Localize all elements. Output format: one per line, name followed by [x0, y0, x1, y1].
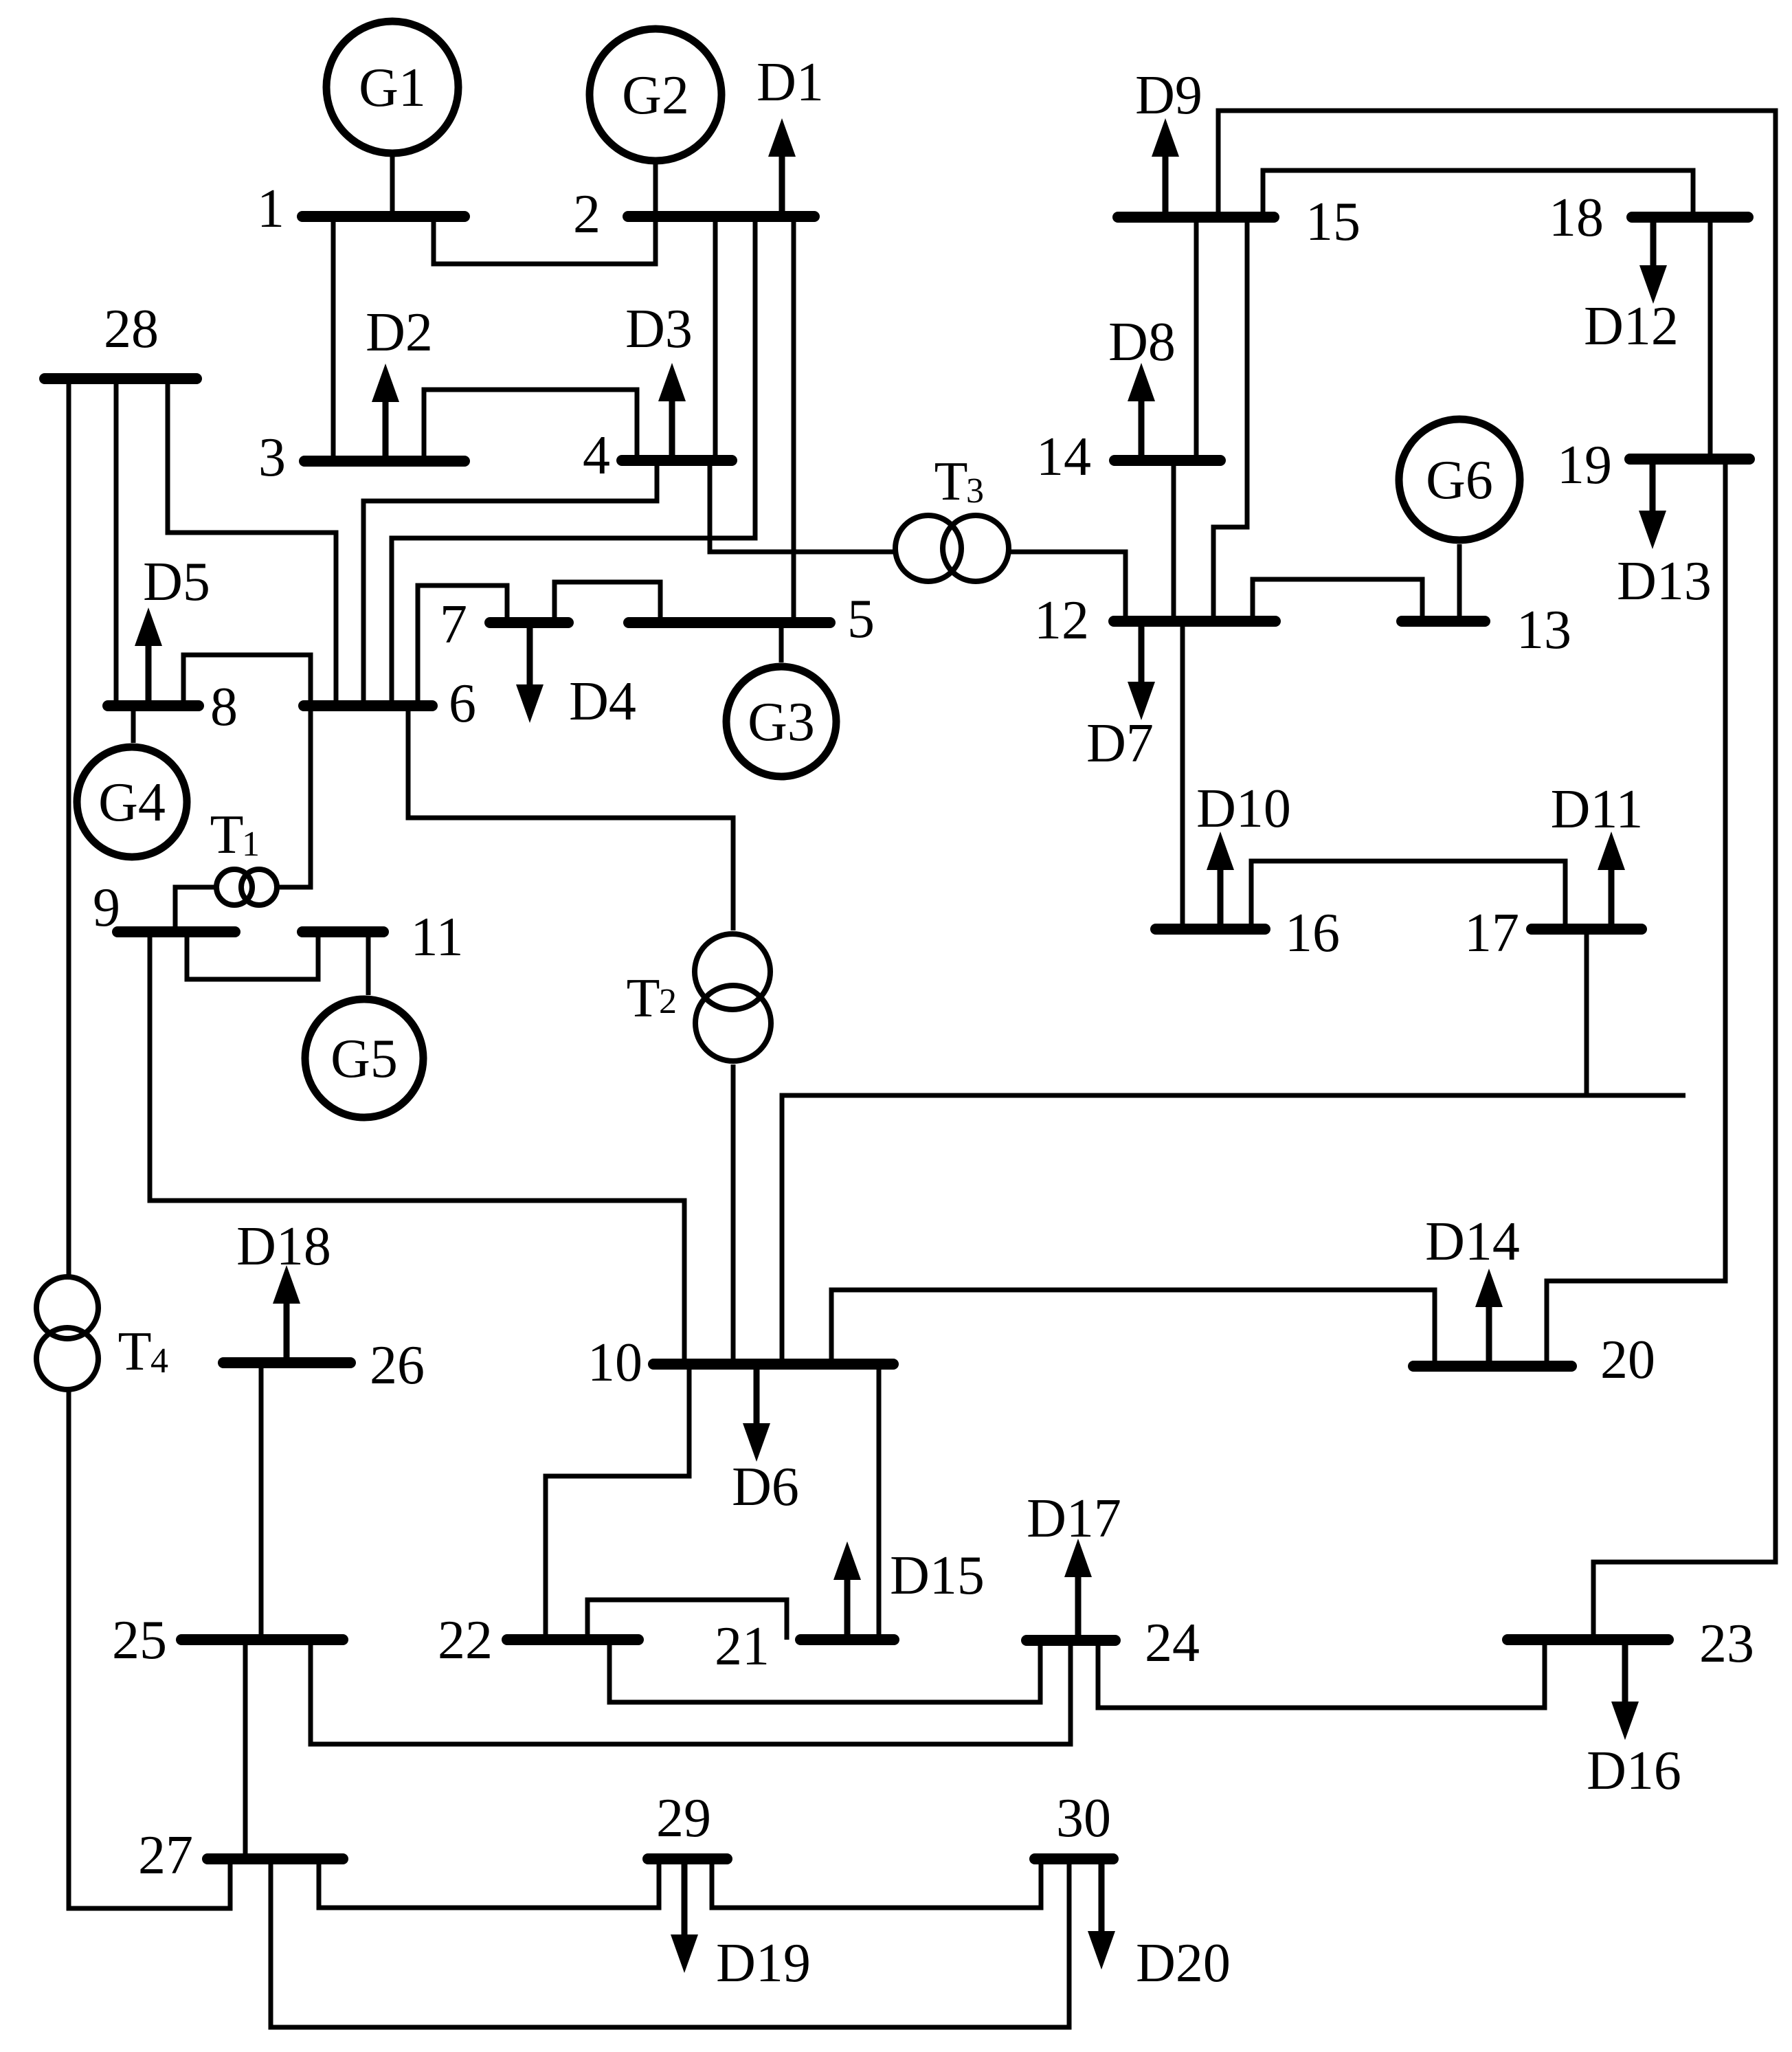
- wire 14-12: [1172, 460, 1176, 621]
- wire T3-12: [1011, 552, 1125, 621]
- wire 26-25: [259, 1363, 264, 1640]
- svg-text:G6: G6: [1426, 450, 1493, 511]
- svg-text:T: T: [210, 805, 244, 865]
- bus 13: [1402, 600, 1571, 660]
- wire 3-4: [424, 390, 637, 461]
- load D19: [671, 1859, 811, 1994]
- svg-text:G1: G1: [359, 58, 426, 118]
- svg-text:T: T: [627, 968, 660, 1029]
- bus 22: [438, 1610, 638, 1671]
- bus 15: [1118, 192, 1360, 252]
- wire 29-30: [712, 1859, 1041, 1908]
- svg-text:4: 4: [150, 1341, 168, 1381]
- svg-text:17: 17: [1464, 903, 1519, 963]
- svg-text:1: 1: [242, 825, 260, 864]
- svg-text:G4: G4: [98, 772, 166, 833]
- bus 17: [1464, 903, 1642, 963]
- wire 19-20: [1547, 459, 1725, 1366]
- wire 24-23: [1098, 1640, 1545, 1708]
- bus 14: [1036, 427, 1220, 487]
- wire G5 lead: [366, 932, 371, 995]
- wire 12-16: [1180, 621, 1185, 929]
- svg-text:9: 9: [93, 878, 120, 938]
- svg-text:3: 3: [966, 471, 984, 511]
- bus 30: [1035, 1788, 1113, 1859]
- svg-text:25: 25: [112, 1610, 167, 1671]
- wire 27-30: [271, 1859, 1069, 2027]
- svg-text:D10: D10: [1196, 779, 1291, 839]
- svg-text:16: 16: [1285, 903, 1340, 963]
- wire 12-13: [1253, 579, 1422, 621]
- load D9: [1135, 65, 1202, 217]
- load D12: [1584, 217, 1679, 357]
- bus 11: [302, 907, 464, 968]
- svg-text:D17: D17: [1027, 1488, 1121, 1549]
- bus 2: [573, 184, 814, 245]
- bus 19: [1557, 435, 1749, 495]
- bus 16: [1156, 903, 1340, 963]
- svg-text:2: 2: [659, 982, 677, 1021]
- wire 10-22: [546, 1364, 689, 1640]
- wire 22-24: [609, 1640, 1040, 1702]
- svg-text:5: 5: [847, 589, 875, 649]
- generator G6: [1399, 419, 1520, 540]
- wire 17 drop: [1584, 929, 1589, 1095]
- svg-text:1: 1: [257, 179, 284, 239]
- bus 27: [138, 1825, 343, 1886]
- load D4: [516, 623, 636, 732]
- generator G4: [77, 747, 187, 857]
- load D6: [732, 1364, 799, 1517]
- wire 28-T4: [67, 379, 71, 1275]
- load D11: [1551, 779, 1644, 929]
- svg-text:D16: D16: [1587, 1741, 1681, 1801]
- bus 23: [1508, 1614, 1754, 1674]
- svg-text:D11: D11: [1551, 779, 1644, 840]
- load D10: [1196, 779, 1291, 929]
- svg-text:D18: D18: [236, 1216, 331, 1277]
- svg-text:D8: D8: [1108, 312, 1176, 372]
- load D16: [1587, 1640, 1681, 1801]
- load D2: [366, 302, 433, 461]
- svg-text:28: 28: [104, 299, 159, 359]
- load D3: [625, 299, 693, 460]
- svg-text:14: 14: [1036, 427, 1091, 487]
- svg-text:12: 12: [1034, 590, 1089, 651]
- wire 2-4: [713, 216, 718, 460]
- svg-text:26: 26: [370, 1335, 425, 1396]
- svg-text:G5: G5: [331, 1029, 398, 1089]
- wire 15-12: [1213, 217, 1247, 621]
- svg-text:D4: D4: [569, 671, 636, 732]
- svg-text:D3: D3: [625, 299, 693, 359]
- transformer T1: [210, 805, 277, 905]
- svg-text:24: 24: [1145, 1613, 1200, 1673]
- svg-text:D13: D13: [1617, 551, 1712, 612]
- svg-text:D2: D2: [366, 302, 433, 363]
- wire 6-T1: [278, 706, 311, 887]
- bus 25: [112, 1610, 343, 1671]
- wire G2 lead: [653, 161, 658, 216]
- transformer T2: [627, 934, 771, 1061]
- svg-text:G2: G2: [622, 65, 689, 126]
- svg-text:21: 21: [715, 1616, 770, 1677]
- bus 3: [258, 427, 464, 488]
- svg-text:T: T: [118, 1321, 152, 1382]
- wire 4-6: [363, 460, 657, 706]
- wire 2-5: [792, 216, 796, 623]
- wire 6-7: [418, 586, 507, 706]
- wire 7-5: [555, 582, 660, 623]
- wire 16-17: [1251, 861, 1565, 929]
- wire 1-3: [331, 216, 336, 461]
- load D13: [1617, 459, 1712, 612]
- generator G5: [305, 999, 423, 1117]
- wire 9-10: [150, 932, 684, 1364]
- svg-text:D6: D6: [732, 1457, 799, 1517]
- svg-text:15: 15: [1306, 192, 1360, 252]
- wire 1-2: [434, 216, 656, 264]
- svg-text:8: 8: [210, 677, 238, 737]
- wire T4-27: [69, 1392, 230, 1908]
- generator G3: [726, 667, 836, 777]
- wire 22-21: [587, 1600, 787, 1640]
- wire 28-6: [168, 379, 336, 706]
- svg-text:20: 20: [1600, 1330, 1655, 1390]
- wire 10-21: [877, 1364, 882, 1640]
- bus 20: [1413, 1330, 1655, 1390]
- wire G3 lead: [779, 623, 784, 662]
- load D5: [135, 552, 210, 706]
- svg-text:D7: D7: [1086, 713, 1154, 774]
- svg-text:D15: D15: [890, 1546, 985, 1606]
- svg-text:3: 3: [258, 427, 286, 488]
- wire T2-10: [731, 1064, 736, 1364]
- svg-text:2: 2: [573, 184, 601, 245]
- wire 27-29: [319, 1859, 659, 1908]
- wire 10-17: [782, 1095, 1685, 1364]
- svg-text:13: 13: [1516, 600, 1571, 660]
- bus 1: [257, 179, 464, 239]
- wire 15-14: [1194, 217, 1199, 460]
- load D17: [1027, 1488, 1121, 1640]
- bus 12: [1034, 590, 1275, 651]
- generator G1: [326, 21, 458, 153]
- svg-text:6: 6: [449, 673, 476, 734]
- svg-text:7: 7: [440, 594, 467, 655]
- bus 4: [583, 425, 732, 486]
- svg-text:D9: D9: [1135, 65, 1202, 126]
- wire 18-19: [1708, 217, 1713, 459]
- bus 8: [108, 677, 238, 737]
- bus 5: [629, 589, 875, 649]
- bus 18: [1549, 188, 1748, 248]
- bus 6: [304, 673, 476, 734]
- load D8: [1108, 312, 1176, 460]
- bus 26: [223, 1335, 425, 1396]
- wire 25-27: [243, 1640, 248, 1859]
- wire 15-23: [1218, 111, 1776, 1640]
- wire 4-T3: [710, 460, 893, 552]
- svg-text:D12: D12: [1584, 296, 1679, 357]
- bus 21: [715, 1616, 894, 1677]
- svg-text:19: 19: [1557, 435, 1612, 495]
- wire G6 lead: [1457, 544, 1462, 621]
- transformer T4: [36, 1277, 168, 1390]
- svg-text:18: 18: [1549, 188, 1604, 248]
- bus 7: [440, 594, 568, 655]
- bus 9: [93, 878, 235, 938]
- svg-text:23: 23: [1699, 1614, 1754, 1674]
- svg-text:30: 30: [1056, 1788, 1111, 1849]
- svg-text:11: 11: [410, 907, 463, 968]
- wire 6-T2: [408, 706, 733, 930]
- wire G1 lead: [390, 153, 395, 216]
- svg-text:29: 29: [656, 1788, 711, 1849]
- wire T1-9: [175, 887, 216, 932]
- wire 28-8: [114, 379, 119, 706]
- wire 10-20: [831, 1290, 1435, 1366]
- svg-text:4: 4: [583, 425, 610, 486]
- load D14: [1425, 1212, 1520, 1366]
- load D18: [236, 1216, 331, 1363]
- bus 29: [648, 1788, 727, 1859]
- wire 9-11: [187, 932, 318, 979]
- svg-text:27: 27: [138, 1825, 193, 1886]
- transformer T3: [895, 451, 1009, 581]
- wire 2-6: [392, 216, 755, 706]
- svg-text:G3: G3: [748, 692, 815, 752]
- bus 10: [587, 1332, 893, 1393]
- load D7: [1086, 621, 1155, 774]
- generator G2: [590, 29, 721, 161]
- wire 8-6: [183, 655, 311, 706]
- svg-text:D20: D20: [1136, 1933, 1231, 1994]
- load D1: [757, 52, 824, 216]
- bus 24: [1027, 1613, 1200, 1673]
- svg-text:22: 22: [438, 1610, 493, 1671]
- bus 28: [45, 299, 197, 379]
- load D15: [833, 1541, 985, 1640]
- svg-text:D14: D14: [1425, 1212, 1520, 1272]
- svg-text:D1: D1: [757, 52, 824, 113]
- svg-text:D19: D19: [716, 1933, 811, 1994]
- load D20: [1088, 1859, 1231, 1994]
- svg-text:10: 10: [587, 1332, 642, 1393]
- svg-text:D5: D5: [143, 552, 210, 612]
- svg-text:T: T: [934, 451, 968, 512]
- wire 15-18: [1263, 170, 1693, 217]
- wire G4 lead: [131, 706, 136, 743]
- wire 25-24: [311, 1640, 1071, 1744]
